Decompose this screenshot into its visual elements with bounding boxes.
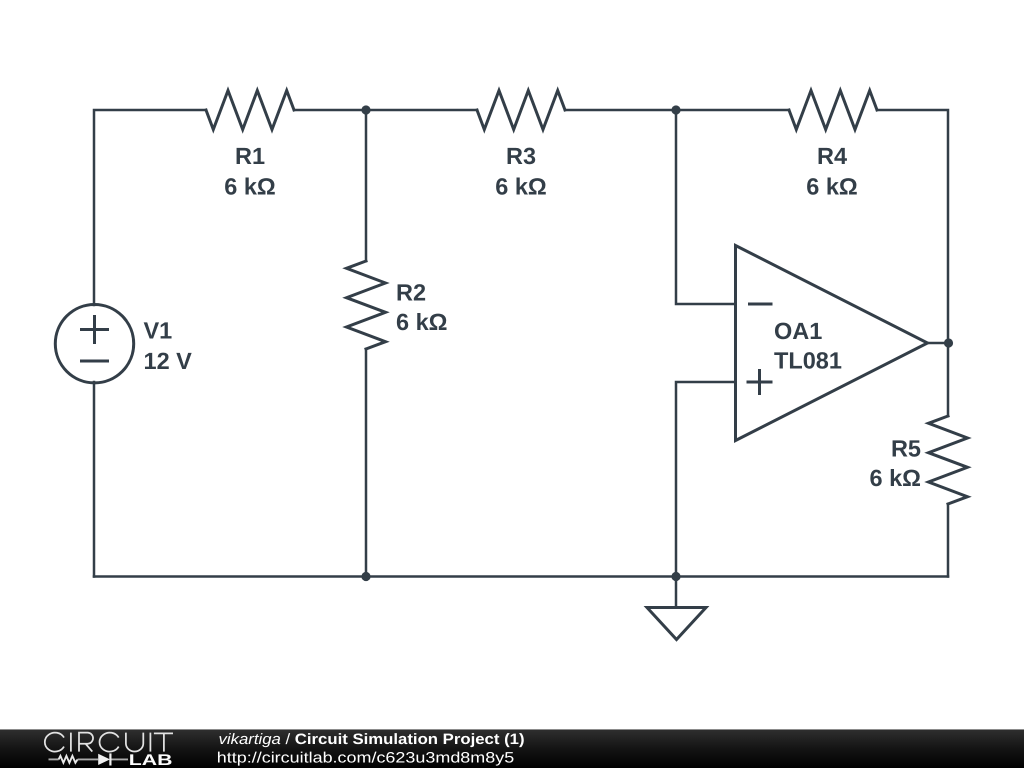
logo resistor glyph (59, 756, 78, 763)
svg-text:R3: R3 (506, 143, 536, 169)
resistor R1 (206, 91, 294, 130)
svg-text:12 V: 12 V (144, 348, 193, 374)
junction R2 bottom node (361, 572, 370, 581)
wire OA1 output to output node (928, 342, 949, 345)
svg-text:http://circuitlab.com/c623u3md: http://circuitlab.com/c623u3md8m8y5 (217, 750, 514, 767)
footer bar (0, 729, 1024, 768)
ground (647, 577, 706, 640)
wire ground node up to non-inverting input (676, 382, 736, 577)
logo letter C (45, 733, 64, 752)
svg-text:6 kΩ: 6 kΩ (869, 465, 921, 491)
junction ground node (671, 572, 680, 581)
logo letter R (79, 733, 93, 752)
svg-text:OA1: OA1 (774, 318, 822, 344)
OA1 non-inverting input plus symbol (748, 371, 771, 394)
resistor R2 (347, 261, 386, 349)
wire V1 plus terminal to R1 left (94, 110, 206, 305)
svg-text:vikartiga / Circuit Simulation: vikartiga / Circuit Simulation Project (… (219, 731, 525, 748)
wire R4 right to right rail corner down to output node (877, 110, 948, 343)
resistor R5 (929, 416, 968, 504)
logo wire middle (78, 758, 99, 760)
resistor R4 (789, 91, 877, 130)
logo letter U (126, 733, 143, 752)
wire R5 bottom to bottom rail (947, 504, 950, 577)
svg-text:R1: R1 (235, 143, 265, 169)
svg-text:R4: R4 (817, 143, 847, 169)
wire bottom rail (94, 575, 948, 578)
svg-text:6 kΩ: 6 kΩ (495, 174, 547, 200)
svg-text:6 kΩ: 6 kΩ (224, 174, 276, 200)
wire output node down to R5 top (947, 343, 950, 416)
junction output node (944, 338, 953, 347)
logo word LAB (129, 752, 173, 769)
wire R2 bottom to bottom rail node (365, 349, 368, 577)
svg-text:TL081: TL081 (774, 348, 842, 374)
logo letter T (154, 733, 173, 751)
wire V1 minus terminal to bottom rail (93, 382, 96, 577)
OA1 inverting input minus symbol (750, 303, 772, 306)
wire node A to R3 left (366, 109, 477, 112)
attribution url line (217, 750, 514, 767)
svg-text:R2: R2 (396, 280, 426, 306)
attribution title line (219, 731, 525, 748)
logo letter C (100, 733, 119, 752)
voltage source V1 (55, 305, 133, 383)
logo diode cathode bar (109, 753, 111, 765)
logo wire lead (49, 758, 59, 760)
footer attribution lines (0, 729, 1024, 768)
logo wire right (112, 758, 129, 760)
svg-text:R5: R5 (891, 436, 921, 462)
wire node A down to R2 top (365, 110, 368, 261)
svg-text:V1: V1 (144, 318, 173, 344)
CircuitLab logo (0, 729, 200, 768)
wire node B to R4 left (676, 109, 789, 112)
logo diode triangle (98, 754, 110, 765)
wire node B down to inverting input (676, 110, 736, 304)
logo letter I (70, 733, 72, 752)
svg-text:6 kΩ: 6 kΩ (806, 174, 858, 200)
junction node B (671, 105, 680, 114)
junction node A (361, 105, 370, 114)
resistor R3 (477, 91, 565, 130)
op-amp OA1 (736, 246, 928, 441)
logo letter I (149, 733, 151, 752)
svg-text:6 kΩ: 6 kΩ (396, 309, 448, 335)
wire R3 right to node B (565, 109, 676, 112)
wire R1 right to node A (294, 109, 366, 112)
